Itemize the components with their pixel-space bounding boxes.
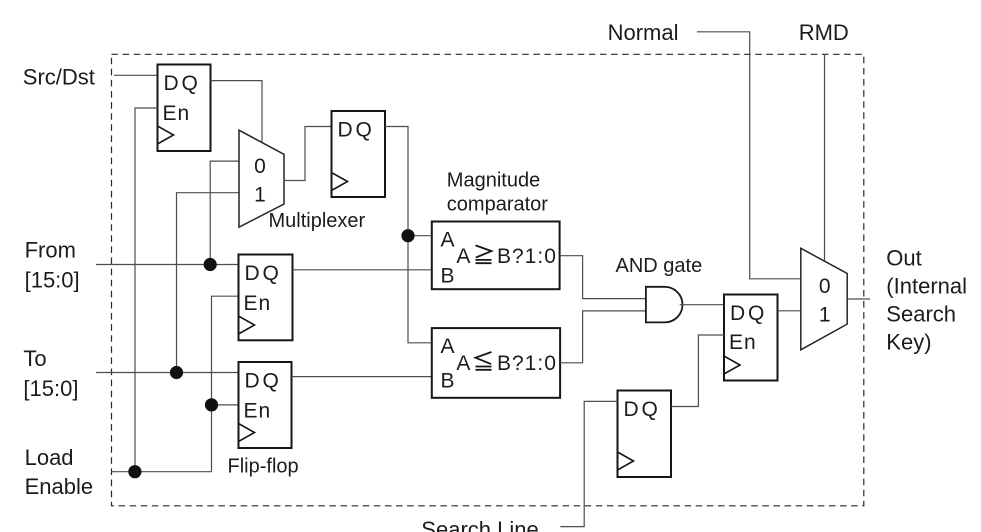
wire AND output to FF5 D <box>680 304 724 306</box>
svg-text:D Q: D Q <box>730 302 764 325</box>
svg-text:B: B <box>441 370 455 393</box>
svg-text:B: B <box>441 265 455 288</box>
wire MUX2 output to Out <box>847 298 870 300</box>
svg-text:En: En <box>244 400 272 423</box>
svg-text:Multiplexer: Multiplexer <box>269 210 366 232</box>
svg-text:En: En <box>244 292 272 315</box>
wire FF5 Q to MUX2 input 1 <box>778 310 801 312</box>
junction rail D / FF4 En <box>205 398 218 411</box>
svg-text:Search Line: Search Line <box>421 517 538 532</box>
wire Normal to MUX2 input 0 <box>697 32 801 279</box>
svg-text:A: A <box>441 335 455 358</box>
wire FF1 Q to multiplexer select <box>211 81 263 143</box>
svg-text:D Q: D Q <box>338 119 372 142</box>
svg-text:D Q: D Q <box>624 398 658 421</box>
wire FF2 Q down to comparators A inputs <box>385 127 432 343</box>
flip-flop FF2 (pipeline register) <box>332 111 386 197</box>
wire CMP2 output to AND gate input 2 <box>560 311 646 363</box>
wire To bus to FF4 D <box>96 372 239 374</box>
wire Load Enable bus <box>111 471 211 473</box>
svg-text:Src/Dst: Src/Dst <box>23 65 95 90</box>
junction Load Enable / rail A <box>128 465 141 478</box>
svg-text:A: A <box>456 352 470 375</box>
wire Src/Dst to FF1 D <box>114 74 158 76</box>
AND gate U1 <box>646 287 683 323</box>
svg-text:A: A <box>441 228 455 251</box>
wire MUX1 output to FF2 D <box>284 127 332 181</box>
junction To/mux1 <box>170 366 183 379</box>
svg-text:AND gate: AND gate <box>616 255 703 277</box>
flip-flop FF6 (search line register) <box>618 391 672 478</box>
wire Load Enable rail D to FF3 En <box>212 296 239 472</box>
svg-text:Normal: Normal <box>608 20 679 45</box>
flip-flop FF4 (To register) <box>239 362 292 448</box>
svg-text:RMD: RMD <box>799 20 849 45</box>
svg-text:B?1:0: B?1:0 <box>497 352 557 375</box>
wire From bus up to multiplexer input 0 <box>210 161 239 264</box>
flip-flop FF1 (Src/Dst register) <box>158 65 211 152</box>
wire Load Enable rail A to FF1 En <box>135 108 158 472</box>
junction FF2-Q rail / comparator1 A <box>401 229 414 242</box>
multiplexer MUX2 (output select) <box>801 248 847 349</box>
svg-text:En: En <box>163 102 191 125</box>
wire FF4 Q to comparator 2 B input <box>292 376 432 378</box>
svg-text:1: 1 <box>254 184 266 207</box>
flip-flop FF5 (output register) <box>724 295 778 381</box>
svg-text:D Q: D Q <box>245 262 279 285</box>
multiplexer MUX1 <box>239 130 284 227</box>
svg-text:1: 1 <box>819 304 831 327</box>
wire RMD to MUX2 select <box>824 55 826 261</box>
svg-text:0: 0 <box>254 155 266 178</box>
wire From bus to FF3 D <box>96 264 239 266</box>
svg-text:En: En <box>729 331 757 354</box>
wire rail D branch to FF4 En <box>212 404 239 406</box>
svg-text:D Q: D Q <box>245 370 279 393</box>
wire CMP1 output to AND gate input 1 <box>560 256 646 299</box>
comparator CMP2 (A less-or-equal B) <box>432 328 560 398</box>
comparator CMP1 (A greater-or-equal B) <box>432 222 560 290</box>
dashed module boundary <box>112 54 864 506</box>
junction From/mux0 <box>204 258 217 271</box>
wire To bus up to multiplexer input 1 <box>177 193 240 373</box>
wire FF6 Q up to FF5 En <box>671 335 724 407</box>
svg-text:Flip-flop: Flip-flop <box>228 456 299 478</box>
svg-text:B?1:0: B?1:0 <box>497 245 557 268</box>
wire branch to comparator 1 A input <box>408 235 432 237</box>
wire Search Line to FF6 D <box>560 401 617 526</box>
svg-text:0: 0 <box>819 275 831 298</box>
flip-flop FF3 (From register) <box>239 255 293 341</box>
svg-text:D Q: D Q <box>164 72 198 95</box>
svg-text:A: A <box>456 245 470 268</box>
wire FF3 Q to comparator 1 B input <box>293 269 432 271</box>
